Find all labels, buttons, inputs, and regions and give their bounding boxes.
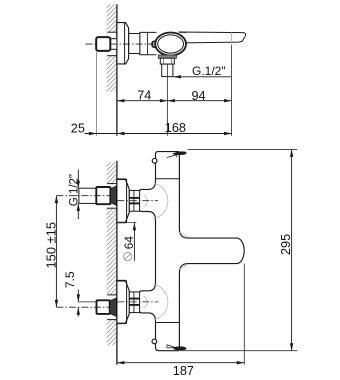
- svg-text:168: 168: [165, 121, 186, 135]
- centerline (top view): [86, 43, 158, 45]
- 150 +-15 dim: [55, 196, 57, 308]
- spout top edge over valve: [179, 31, 187, 33]
- outlet pipe G.1/2: [162, 64, 173, 77]
- cartridge tab on valve left: [152, 41, 156, 47]
- extension line from knob (25 dim): [95, 52, 97, 136]
- handle knob (in-wall fitting): [96, 37, 110, 51]
- screw circle top cap: [152, 158, 157, 163]
- top escutcheon (bottom view): [117, 179, 129, 222]
- wall hatching (bottom view): [107, 162, 117, 183]
- top nut: [96, 187, 110, 204]
- svg-text:74: 74: [137, 89, 151, 103]
- body connector B: [140, 32, 157, 54]
- diameter 64 dim: [117, 222, 136, 224]
- svg-text:150 ±15: 150 ±15: [43, 222, 58, 269]
- lever handle top (black lens): [172, 151, 187, 155]
- wall line (bottom view): [116, 161, 118, 365]
- svg-text:94: 94: [192, 89, 206, 103]
- 7.5 reference tick: [78, 301, 96, 303]
- G.1/2 leader (top view): [173, 76, 231, 78]
- dimension line 25 / 168: [85, 133, 232, 135]
- bottom nut: [97, 300, 110, 314]
- gray collar under valve: [158, 55, 176, 58]
- svg-text:7.5: 7.5: [63, 271, 77, 288]
- svg-text:295: 295: [279, 234, 293, 255]
- bottom escutcheon (bottom view): [117, 281, 129, 324]
- joint line on connector B: [146, 32, 148, 54]
- svg-text:G.1/2": G.1/2": [69, 174, 81, 206]
- G.1/2 dim (bottom view): [77, 170, 79, 189]
- 295 dim: [188, 148, 298, 150]
- valve body inner ellipse: [158, 35, 184, 53]
- centerline top pipe: [56, 195, 118, 197]
- lever handle bottom (black lens): [173, 346, 186, 350]
- diameter symbol: [124, 253, 132, 261]
- centerline bottom pipe: [56, 306, 118, 308]
- top cone (eccentric): [110, 186, 116, 205]
- in-wall socket edge lines: [107, 31, 116, 33]
- sphere silhouette arcs (gray) top boss: [154, 183, 168, 219]
- sphere silhouette arcs (gray) bottom boss: [154, 284, 168, 320]
- body silhouette with bosses and spout: [139, 152, 244, 351]
- centerline top body inlet: [117, 200, 158, 202]
- centerline bottom body inlet: [117, 301, 158, 303]
- extension line through spout to 94 dim: [231, 32, 233, 45]
- sphere silhouette arc (gray) spout root: [179, 233, 188, 238]
- cap joint lines: [156, 178, 180, 180]
- extension line outlet center: [166, 65, 168, 136]
- body connector A (hex between escutcheon and body): [129, 34, 140, 54]
- top wall pipe: [79, 188, 96, 203]
- screw circle bottom cap: [152, 339, 157, 344]
- 7.5 dim: [77, 290, 79, 302]
- valve body outer ellipse: [155, 33, 186, 56]
- escutcheon (top view): [117, 23, 129, 64]
- outlet hex block: [160, 58, 174, 64]
- svg-text:187: 187: [173, 364, 194, 378]
- bottom cone (eccentric): [110, 298, 117, 316]
- bottom hex adapter: [129, 292, 139, 313]
- spout (top view): [179, 32, 246, 43]
- svg-text:64: 64: [122, 236, 136, 250]
- handle knob stem (in-wall fitting): [110, 39, 117, 50]
- 187 dim: [243, 264, 245, 365]
- wall line (top view): [116, 4, 118, 136]
- socket edge lines (bottom view): [107, 183, 116, 185]
- svg-text:25: 25: [71, 121, 85, 135]
- dimension line 74 / 94: [117, 100, 232, 102]
- svg-text:G.1/2": G.1/2": [192, 64, 226, 78]
- wall hatching (top view): [107, 4, 117, 32]
- top hex adapter: [129, 190, 139, 211]
